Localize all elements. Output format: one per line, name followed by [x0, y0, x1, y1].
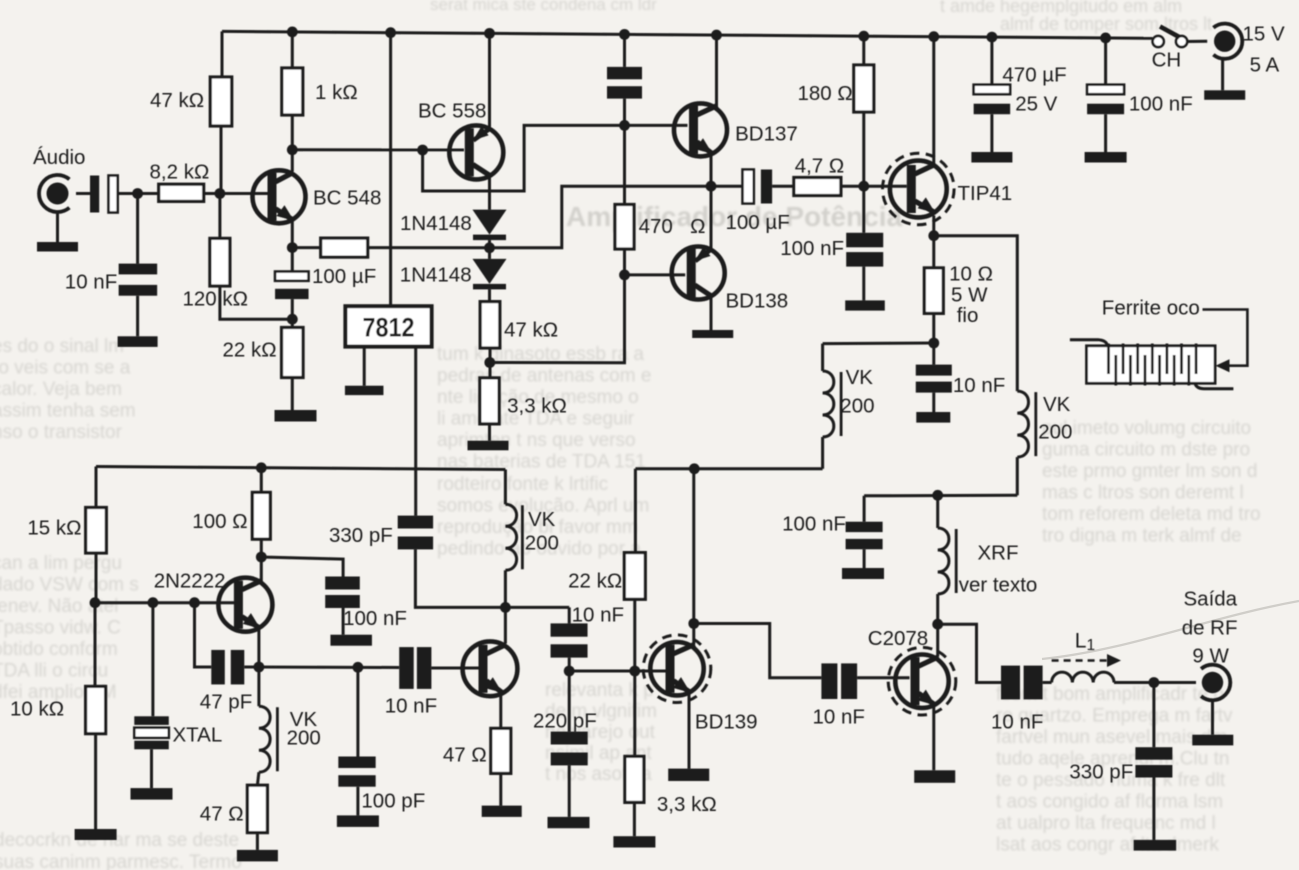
svg-text:100 Ω: 100 Ω: [192, 510, 247, 533]
svg-text:Saída: Saída: [1184, 588, 1238, 611]
svg-text:es do o sinal lm: es do o sinal lm: [0, 336, 124, 357]
svg-text:lsat aos congr af lta dmerk: lsat aos congr af lta dmerk: [996, 835, 1219, 856]
svg-text:BD138: BD138: [726, 290, 789, 313]
svg-text:100 nF: 100 nF: [343, 607, 407, 630]
svg-text:hso o transistor: hso o transistor: [0, 422, 123, 443]
svg-text:suas caninm parmesc. Termo: suas caninm parmesc. Termo: [0, 852, 242, 870]
svg-text:100 µF: 100 µF: [312, 265, 376, 288]
svg-text:almf de tomper som ltros lt: almf de tomper som ltros lt: [1000, 14, 1212, 34]
svg-text:10 nF: 10 nF: [385, 695, 437, 718]
svg-text:4,7 Ω: 4,7 Ω: [795, 155, 845, 178]
svg-text:10 nF: 10 nF: [953, 374, 1005, 397]
svg-text:tro digna m terk almf de: tro digna m terk almf de: [1042, 526, 1242, 547]
svg-text:470: 470: [639, 215, 673, 238]
svg-text:9 W: 9 W: [1192, 645, 1229, 668]
svg-text:22 kΩ: 22 kΩ: [223, 339, 277, 362]
svg-text:7812: 7812: [363, 313, 415, 343]
svg-text:100 nF: 100 nF: [782, 513, 846, 536]
svg-text:1 kΩ: 1 kΩ: [315, 81, 358, 104]
svg-text:tenev. Não atel: tenev. Não atel: [0, 596, 118, 617]
svg-text:15 V: 15 V: [1243, 23, 1285, 46]
svg-text:200: 200: [287, 727, 321, 750]
svg-text:100 nF: 100 nF: [780, 237, 844, 260]
svg-text:330 pF: 330 pF: [329, 524, 393, 547]
svg-text:8,2 kΩ: 8,2 kΩ: [150, 161, 210, 184]
svg-text:470 µF: 470 µF: [1002, 64, 1066, 87]
svg-text:10 nF: 10 nF: [572, 604, 624, 627]
svg-text:ro veis com se a: ro veis com se a: [0, 358, 131, 379]
svg-text:3,3 kΩ: 3,3 kΩ: [657, 793, 717, 816]
svg-text:Áudio: Áudio: [33, 146, 85, 169]
svg-text:pul imeto volumg circuito: pul imeto volumg circuito: [1042, 418, 1251, 439]
svg-text:10 nF: 10 nF: [813, 706, 865, 729]
svg-text:fio: fio: [957, 304, 979, 327]
svg-text:can a lim pergu: can a lim pergu: [0, 553, 122, 574]
svg-text:1: 1: [1087, 637, 1096, 654]
svg-text:47 Ω: 47 Ω: [200, 803, 244, 826]
svg-text:15 kΩ: 15 kΩ: [27, 517, 81, 540]
svg-text:120 kΩ: 120 kΩ: [183, 288, 248, 311]
svg-text:200: 200: [525, 532, 559, 555]
svg-text:t aos congido af florma lsm: t aos congido af florma lsm: [996, 792, 1223, 813]
svg-text:1N4148: 1N4148: [400, 264, 472, 287]
svg-text:XTAL: XTAL: [173, 724, 223, 747]
svg-text:5 A: 5 A: [1250, 54, 1280, 77]
svg-text:10 kΩ: 10 kΩ: [10, 698, 64, 721]
svg-text:2N2222: 2N2222: [154, 570, 226, 593]
svg-text:de RF: de RF: [1182, 617, 1238, 640]
svg-text:tom reforem deleta md tro: tom reforem deleta md tro: [1042, 504, 1261, 525]
svg-text:serat mica ste condena cm l: serat mica ste condena cm ldr: [430, 0, 657, 14]
svg-text:at ualpro lta frequenc md l: at ualpro lta frequenc md l: [996, 813, 1216, 834]
svg-text:25 V: 25 V: [1015, 93, 1057, 116]
svg-text:TDA lli o circu: TDA lli o circu: [0, 661, 108, 682]
svg-text:47 kΩ: 47 kΩ: [504, 319, 558, 342]
svg-text:L: L: [1075, 630, 1087, 653]
svg-text:10 nF: 10 nF: [991, 711, 1043, 734]
svg-text:330 pF: 330 pF: [1069, 761, 1133, 784]
svg-text:VK: VK: [846, 366, 874, 389]
svg-text:pedras de antenas com e: pedras de antenas com e: [437, 366, 651, 387]
svg-text:XRF: XRF: [978, 542, 1019, 565]
svg-text:calor. Veja bem: calor. Veja bem: [0, 379, 122, 400]
svg-text:10 nF: 10 nF: [65, 271, 117, 294]
svg-text:rodteiro fonte k lrtific: rodteiro fonte k lrtific: [437, 474, 608, 495]
svg-text:200: 200: [1038, 421, 1072, 444]
svg-text:180 Ω: 180 Ω: [798, 82, 853, 105]
svg-text:100 pF: 100 pF: [361, 790, 425, 813]
svg-text:220 pF: 220 pF: [533, 710, 597, 733]
svg-text:47 Ω: 47 Ω: [443, 744, 487, 767]
svg-text:dado VSW com s: dado VSW com s: [0, 575, 139, 596]
svg-text:mas c ltros son deremt l: mas c ltros son deremt l: [1042, 483, 1244, 504]
svg-text:VK: VK: [1043, 393, 1071, 416]
svg-text:100 nF: 100 nF: [1129, 93, 1193, 116]
svg-text:3,3 kΩ: 3,3 kΩ: [507, 395, 567, 418]
svg-text:10 Ω: 10 Ω: [949, 263, 993, 286]
svg-text:guma circuito m dste pro: guma circuito m dste pro: [1042, 440, 1250, 461]
svg-text:TIP41: TIP41: [958, 182, 1013, 205]
svg-text:BC 558: BC 558: [418, 100, 486, 123]
svg-text:C2078: C2078: [868, 627, 928, 650]
svg-text:assim tenha sem: assim tenha sem: [0, 401, 136, 422]
svg-text:100 µF: 100 µF: [726, 211, 790, 234]
svg-text:47 kΩ: 47 kΩ: [150, 89, 204, 112]
svg-text:aprimten t ns que verso: aprimten t ns que verso: [437, 430, 636, 451]
svg-text:47 pF: 47 pF: [200, 691, 252, 714]
svg-text:Tpasso vidw. C: Tpasso vidw. C: [0, 618, 121, 639]
svg-text:BC 548: BC 548: [313, 187, 381, 210]
svg-text:CH: CH: [1152, 49, 1182, 72]
svg-text:BD139: BD139: [695, 711, 758, 734]
svg-text:relevanta k p: relevanta k p: [545, 680, 654, 701]
svg-text:Ω: Ω: [690, 215, 705, 238]
svg-text:BD137: BD137: [735, 123, 798, 146]
svg-text:Ferrite oco: Ferrite oco: [1102, 297, 1200, 320]
svg-text:decocrkn de har ma se deste: decocrkn de har ma se deste: [0, 830, 239, 851]
svg-text:obtido conform: obtido conform: [0, 639, 118, 660]
svg-text:1N4148: 1N4148: [400, 212, 472, 235]
svg-text:22 kΩ: 22 kΩ: [568, 570, 622, 593]
svg-text:ver texto: ver texto: [959, 574, 1038, 597]
svg-text:este prmo gmter lm son d: este prmo gmter lm son d: [1042, 461, 1257, 482]
svg-text:200: 200: [840, 395, 874, 418]
svg-text:VK: VK: [528, 508, 556, 531]
